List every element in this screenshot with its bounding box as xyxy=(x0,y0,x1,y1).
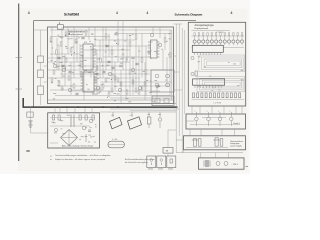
component value labels (texture) xyxy=(50,32,244,142)
capacitor C13 xyxy=(75,93,78,95)
power board frame xyxy=(184,136,246,150)
LED transistor Q30 xyxy=(236,33,239,46)
wire VX11 xyxy=(126,34,128,63)
resistor R47 xyxy=(84,58,86,62)
svg-text:4: 4 xyxy=(147,11,149,15)
driver IC4 xyxy=(193,79,225,88)
resistor R46 xyxy=(96,66,98,70)
svg-text:die Geräte-Nr. mit angeben: die Geräte-Nr. mit angeben xyxy=(125,161,148,164)
wire rail HX2 xyxy=(84,49,130,51)
page mark bottom right xyxy=(246,165,249,168)
diode D30 xyxy=(85,134,88,142)
transistor Q50 xyxy=(82,126,86,130)
wire link D3 xyxy=(211,106,213,114)
svg-text:Bei Ersatzteilbestellung bitte: Bei Ersatzteilbestellung bitte immer xyxy=(125,158,155,161)
resistor R14 xyxy=(135,35,137,39)
loudspeaker LS2 xyxy=(128,112,142,129)
charger label xyxy=(62,144,94,147)
svg-text:4: 4 xyxy=(28,11,30,15)
transistor Q42 xyxy=(218,111,222,127)
wire VX12 xyxy=(132,62,134,95)
plug box X3 xyxy=(167,156,176,168)
wire link P4 xyxy=(234,129,236,136)
resistor R50 xyxy=(193,93,195,98)
plug label 3 xyxy=(168,168,173,171)
transistor Q10 xyxy=(62,68,66,72)
wire rail H6 xyxy=(48,69,172,71)
register mark 3 xyxy=(147,11,149,15)
wire VX2 xyxy=(64,54,66,86)
capacitor C8 xyxy=(90,65,93,67)
wire rail H8 xyxy=(60,85,170,87)
driver IC3 xyxy=(192,45,223,55)
resistor R61 xyxy=(239,93,241,98)
display board title xyxy=(195,24,215,30)
mains transformer T2 xyxy=(204,160,210,167)
junction dots (texture) xyxy=(51,33,169,98)
resistor R19 xyxy=(51,78,53,82)
transistor Q15 xyxy=(166,83,170,87)
resistor R24 xyxy=(117,78,119,82)
resistor R40 xyxy=(114,76,116,80)
resistor R45 xyxy=(144,82,146,86)
wire V5 xyxy=(73,27,75,78)
wire rail H7 xyxy=(48,77,140,79)
bus loop nest B xyxy=(197,76,245,91)
wire rail H9 xyxy=(55,95,170,97)
board title Verstaerker-Baugruppe xyxy=(68,30,88,36)
plug label 1 xyxy=(148,168,153,171)
wire VX5 xyxy=(83,70,85,100)
wire charger stub 4 xyxy=(59,107,61,113)
band board rail 2 xyxy=(202,117,226,119)
jack socket BU1 xyxy=(147,112,151,128)
capacitor C23 xyxy=(220,139,223,147)
svg-text:Akku-Ladeschaltung / battery c: Akku-Ladeschaltung / battery charger xyxy=(62,144,94,147)
resistor R13 xyxy=(129,42,131,46)
wire channel 3 xyxy=(181,28,183,153)
wire link D5 xyxy=(235,106,237,114)
wire channel to 77 box xyxy=(168,130,176,148)
wire V3 xyxy=(61,27,63,78)
resistor R20 xyxy=(61,86,63,90)
op-amp IC1b xyxy=(81,70,97,92)
wire V11 xyxy=(117,21,119,62)
transistor Q33 xyxy=(191,56,194,59)
capacitor C14 xyxy=(83,65,86,67)
wire V12 xyxy=(122,21,124,70)
resistor R55 xyxy=(214,93,216,98)
LED transistor Q31 xyxy=(240,33,243,46)
resistor R28 xyxy=(111,88,113,92)
label speck jack xyxy=(148,113,150,116)
capacitor C20 xyxy=(192,139,199,147)
resistor R21 xyxy=(73,84,75,88)
op-amp IC1 xyxy=(81,42,96,70)
label speck charger 1 xyxy=(53,122,56,125)
svg-text:Anzeigebaugruppe: Anzeigebaugruppe xyxy=(195,24,215,27)
wire V7 xyxy=(94,27,96,46)
svg-text:LS2: LS2 xyxy=(130,115,133,117)
wire V13 xyxy=(129,34,131,96)
wire rail HX1 xyxy=(50,36,110,38)
resistor R57 xyxy=(222,93,224,98)
svg-text:Amplifier board: Amplifier board xyxy=(68,33,83,36)
wire V6 xyxy=(79,44,81,70)
wire V15 xyxy=(141,34,143,79)
wire VX13 xyxy=(138,46,140,86)
junction dots on ground bus xyxy=(66,106,118,107)
resistor R8 xyxy=(100,58,102,62)
LED transistor Q28 xyxy=(228,33,231,46)
wire V1 xyxy=(51,27,53,62)
wire VX3 xyxy=(70,62,72,95)
wire V18 xyxy=(164,34,166,51)
wire VX15 xyxy=(150,70,152,95)
resistor R39 xyxy=(108,92,110,96)
wire V17 xyxy=(159,27,161,38)
charger wire rail 1 xyxy=(50,117,95,119)
resistor R29 xyxy=(141,86,143,90)
wire rail H11 xyxy=(103,56,148,58)
svg-text:Technische Änderungen vorbehal: Technische Änderungen vorbehalten – alle… xyxy=(55,154,111,157)
resistor R18 xyxy=(169,53,171,57)
resistor R72 xyxy=(79,115,81,120)
top border rule xyxy=(34,20,197,22)
capacitor C30 xyxy=(88,130,91,131)
resistor R52 xyxy=(201,93,203,98)
transistor Q43 xyxy=(229,111,233,127)
wire V14 xyxy=(135,27,137,86)
LED transistor Q22 xyxy=(202,33,205,46)
capacitor C7 xyxy=(68,71,71,73)
wire inner right edge xyxy=(171,30,173,100)
transistor Q40 xyxy=(194,111,198,127)
resistor R59 xyxy=(230,93,232,98)
wire switch chain vertical xyxy=(40,30,42,105)
capacitor C10 xyxy=(156,85,159,87)
wire charger stub 5 xyxy=(74,107,76,113)
svg-text:Subject to alteration – all va: Subject to alteration – all values appro… xyxy=(55,158,105,161)
mains box frame xyxy=(199,158,245,169)
wire rail HX8 xyxy=(110,97,174,99)
wire stub into frame 3 xyxy=(44,81,48,83)
wire rail HX7 xyxy=(48,57,100,59)
capacitor C15 xyxy=(95,73,98,75)
wire VX6 xyxy=(90,46,92,78)
resistor R73 xyxy=(85,115,87,120)
wire to connector 77 xyxy=(167,153,169,156)
wire rail supply xyxy=(60,103,176,105)
transistor Q13 xyxy=(166,74,170,78)
wire V23 xyxy=(152,27,154,34)
resistor R74 xyxy=(92,115,94,120)
wire channel 4 xyxy=(184,30,186,114)
wire V19 xyxy=(169,30,171,96)
wire V21 xyxy=(88,27,90,40)
wire channel to power board xyxy=(176,139,183,141)
wire rail H1 xyxy=(50,29,172,31)
transistor Q34 xyxy=(191,72,194,75)
LED transistor Q23 xyxy=(206,33,209,46)
svg-text:4: 4 xyxy=(231,11,233,15)
wire rail H10 xyxy=(95,39,135,41)
resistor R33 xyxy=(58,82,60,86)
plug box X2 xyxy=(157,156,166,168)
fuse F1 xyxy=(38,86,44,95)
transistor Q8 xyxy=(158,43,162,47)
op-amp IC2 xyxy=(148,40,160,58)
bridge rectifier GR1 xyxy=(61,130,78,146)
resistor R38 xyxy=(102,84,104,88)
wire link D2 xyxy=(199,106,201,114)
resistor R16 xyxy=(145,70,147,74)
transistor Q5 xyxy=(118,88,122,92)
wire VX9 xyxy=(114,62,116,90)
svg-text:06: 06 xyxy=(26,149,30,153)
transistor Q12 xyxy=(155,74,159,78)
resistor R37 xyxy=(92,90,94,94)
wire channel 2 xyxy=(178,24,180,136)
svg-text:Display board: Display board xyxy=(195,27,209,30)
resistor R4 xyxy=(65,32,67,36)
wire charger stub 2 xyxy=(66,107,68,113)
wire stub into frame xyxy=(34,29,48,31)
capacitor C2 xyxy=(81,37,84,39)
transistor Q4 xyxy=(108,72,112,76)
wire rail H5 xyxy=(48,61,130,63)
resistor R34 xyxy=(68,76,70,80)
svg-text:LS1: LS1 xyxy=(111,115,114,117)
switch S1 xyxy=(38,56,44,63)
battery pack BAT xyxy=(108,139,124,148)
LED transistor Q26 xyxy=(219,33,222,46)
wire link M1 xyxy=(200,153,202,158)
resistor R56 xyxy=(218,93,220,98)
resistor R54 xyxy=(209,93,211,98)
wire link block-channel 3 xyxy=(174,89,183,91)
fold tick 1 xyxy=(16,57,23,59)
transistor Q11 xyxy=(86,76,90,80)
resistor R71 xyxy=(58,115,60,120)
page fold rule (left margin) xyxy=(18,4,20,162)
wire V4 xyxy=(67,27,69,54)
plug label 2 xyxy=(158,168,163,171)
band board bus xyxy=(190,124,240,126)
capacitor C6 xyxy=(147,51,150,53)
wire VX4 xyxy=(76,34,78,63)
resistor R23 xyxy=(105,78,107,82)
microphone MIC xyxy=(158,112,161,128)
wire link D4 xyxy=(223,106,225,114)
wire V10 xyxy=(111,46,113,86)
resistor R32 xyxy=(53,70,55,74)
resistor R44 xyxy=(138,90,140,94)
resistor R30 xyxy=(65,58,67,62)
wire VX14 xyxy=(144,62,146,100)
resistor R53 xyxy=(205,93,207,98)
resistor R70 xyxy=(53,115,55,120)
bus loop nest A xyxy=(199,55,245,72)
svg-text:Schaltbild: Schaltbild xyxy=(64,12,79,16)
svg-text:4 x R6: 4 x R6 xyxy=(112,139,117,141)
rectifier D21 xyxy=(224,162,228,166)
capacitor C18 xyxy=(105,45,108,47)
wire rail HX3 xyxy=(55,65,120,67)
svg-text:a: a xyxy=(218,111,219,113)
transistor Q2 xyxy=(68,88,72,92)
connector K1 on frame top xyxy=(57,21,63,29)
wire charger stub 3 xyxy=(84,107,86,113)
capacitor C22 xyxy=(213,138,220,146)
LED transistor Q25 xyxy=(215,33,218,46)
capacitor C12 xyxy=(135,63,138,65)
wire V9 xyxy=(105,27,107,70)
transistor Q3 xyxy=(96,86,100,90)
resistor R40 xyxy=(195,71,197,76)
wire stub into frame 2 xyxy=(44,65,48,67)
loudspeaker LS1 xyxy=(110,112,123,129)
resistor R35 xyxy=(80,72,82,76)
wire rail H3 xyxy=(95,45,150,47)
svg-text:▲: ▲ xyxy=(50,158,52,161)
transistor Q6 xyxy=(131,68,135,72)
wire rail exit 1 xyxy=(110,108,179,110)
svg-text:▲: ▲ xyxy=(50,154,52,157)
wire link M4 xyxy=(183,150,185,153)
charger wire rail 2 xyxy=(50,125,90,127)
battery B1 xyxy=(29,121,33,127)
plug box X1 xyxy=(147,156,156,168)
resistor R42 xyxy=(126,90,128,94)
resistor R15 xyxy=(141,58,143,62)
rectifier D20 xyxy=(216,162,220,166)
wire charger stub 6 xyxy=(91,107,93,113)
battery input connector xyxy=(27,112,33,117)
svg-text:a: a xyxy=(229,111,230,113)
wire rail HX5 xyxy=(100,81,172,83)
svg-text:a: a xyxy=(207,111,208,113)
ground bus (heavy) xyxy=(23,98,177,107)
svg-text:~ 230 V: ~ 230 V xyxy=(231,164,239,166)
transistor Q9 xyxy=(150,33,154,37)
resistor R5 xyxy=(70,48,72,52)
wire rail H2 xyxy=(118,33,172,35)
wire link block-channel 2 xyxy=(174,71,180,73)
wire battery vertical xyxy=(30,107,32,133)
charger transformer T1 xyxy=(71,115,74,128)
display rail 2 xyxy=(192,30,231,32)
resistor R7 xyxy=(95,50,97,54)
wire VX7 xyxy=(96,54,98,95)
svg-text:Schematic Diagram: Schematic Diagram xyxy=(175,12,203,16)
sub rail below bus xyxy=(100,111,176,113)
power board inner rail xyxy=(186,147,228,149)
resistor R17 xyxy=(164,38,166,42)
transistor Q52 xyxy=(54,128,57,131)
power board label xyxy=(230,140,243,148)
wire rail ground return xyxy=(48,99,174,101)
wire battery to charger xyxy=(31,132,48,134)
wire rail H12 xyxy=(50,89,100,91)
wire V16 xyxy=(145,46,147,96)
resistor R41 xyxy=(120,82,122,86)
svg-text:L 2 POS: L 2 POS xyxy=(214,103,222,105)
wire rail exit 2 xyxy=(130,110,176,112)
capacitor C4 xyxy=(119,65,122,67)
label speck charger 2 xyxy=(80,123,83,126)
transistor Q41 xyxy=(207,111,211,127)
wire VX8 xyxy=(108,34,110,58)
resistor R3 xyxy=(60,42,62,46)
wire channel 1 xyxy=(175,24,177,153)
resistor R25 xyxy=(129,70,131,74)
register mark 2 xyxy=(116,11,118,15)
resistor R1 xyxy=(50,38,52,42)
wire link D1 xyxy=(191,106,193,114)
resistor R26 xyxy=(135,88,137,92)
resistor R9 xyxy=(105,34,107,38)
resistor R11 xyxy=(117,40,119,44)
wire link block-channel 1 xyxy=(174,55,177,57)
wire link M2 xyxy=(214,153,216,158)
LED transistor Q20 xyxy=(193,33,196,46)
wire channel bottom link xyxy=(176,152,243,154)
resistor R2 xyxy=(56,50,58,54)
wire V2 xyxy=(56,38,58,70)
wire VX17 xyxy=(162,50,164,70)
display supply rail xyxy=(192,35,245,37)
capacitor C21 xyxy=(198,139,201,147)
resistor R51 xyxy=(197,93,199,98)
wire VX18 xyxy=(166,57,168,86)
LED row bus xyxy=(192,47,245,49)
charger wire rail 3 xyxy=(50,142,58,144)
wire VX10 xyxy=(120,70,122,103)
band board frame xyxy=(186,114,246,129)
LED transistor Q27 xyxy=(223,33,226,46)
svg-text:Band 5: Band 5 xyxy=(234,123,241,125)
wire V22 xyxy=(125,57,127,100)
resistor R6 xyxy=(75,39,77,43)
resistor R58 xyxy=(226,93,228,98)
fold tick 2 xyxy=(16,88,23,90)
svg-text:Batteriebetriebener: Batteriebetriebener xyxy=(68,30,88,33)
svg-text:4: 4 xyxy=(116,11,118,15)
capacitor C16 xyxy=(111,67,114,69)
resistor R31 xyxy=(85,31,87,35)
transistor Q1 xyxy=(53,64,57,68)
resistor R43 xyxy=(132,80,134,84)
output stage box xyxy=(151,70,174,92)
resistor R10 xyxy=(111,50,113,54)
wire VX1 xyxy=(58,46,60,70)
label speck mic xyxy=(159,113,161,116)
resistor R27 xyxy=(99,88,101,92)
wire V8 xyxy=(99,40,101,78)
register mark 4 xyxy=(231,11,233,15)
wire link M3 xyxy=(227,153,229,158)
connector box K2 xyxy=(152,96,174,106)
capacitor C17 xyxy=(61,65,64,67)
LED transistor Q24 xyxy=(210,33,213,46)
resistor R60 xyxy=(235,93,237,98)
display board frame xyxy=(188,22,245,106)
svg-text:power supply: power supply xyxy=(230,145,241,148)
wire channel top link xyxy=(174,23,183,25)
band board stub L xyxy=(186,120,195,122)
display bottom rail xyxy=(192,98,245,100)
